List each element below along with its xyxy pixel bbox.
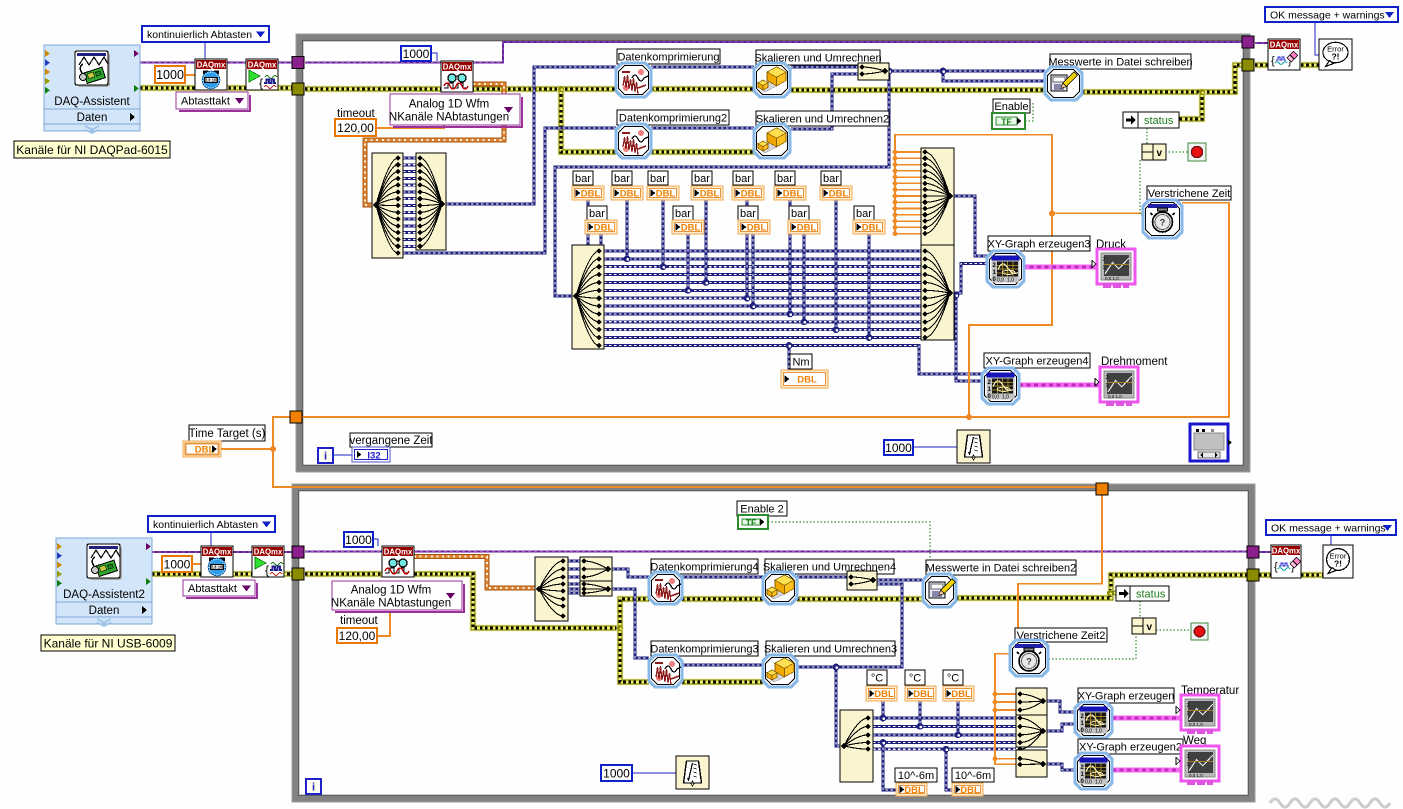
svg-text:DAQmx: DAQmx (1272, 546, 1301, 555)
svg-text:{: { (259, 76, 263, 90)
svg-text:DBL: DBL (741, 189, 761, 200)
svg-text:Daten: Daten (89, 605, 120, 617)
svg-text:status: status (1136, 589, 1166, 601)
svg-text:DAQmx: DAQmx (203, 547, 232, 556)
svg-text:DAQmx: DAQmx (197, 60, 226, 69)
svg-text:1000: 1000 (885, 441, 912, 455)
svg-text:vergangene Zeit: vergangene Zeit (349, 435, 433, 447)
svg-text:?: ? (1026, 657, 1032, 667)
svg-text:0,0 1,0: 0,0 1,0 (1189, 722, 1203, 727)
svg-text:DBL: DBL (874, 689, 894, 700)
svg-text:?: ? (1160, 218, 1166, 228)
svg-text:DBL: DBL (700, 189, 720, 200)
svg-text:bar: bar (675, 208, 691, 220)
svg-text:DBL: DBL (681, 223, 701, 234)
svg-text:NKanäle NAbtastungen: NKanäle NAbtastungen (331, 598, 451, 610)
svg-text:1000: 1000 (345, 533, 372, 547)
svg-text:bar: bar (823, 173, 839, 185)
svg-text:i: i (324, 451, 327, 463)
svg-text:XY-Graph erzeugen4: XY-Graph erzeugen4 (986, 355, 1089, 367)
svg-text:13:10: 13:10 (212, 565, 223, 570)
svg-text:2: 2 (1187, 754, 1190, 760)
svg-text:1000: 1000 (156, 68, 184, 82)
svg-text:{: { (1271, 55, 1275, 67)
svg-text:bar: bar (791, 208, 807, 220)
svg-text:OK message + warnings: OK message + warnings (1271, 522, 1386, 534)
svg-text:DBL: DBL (783, 189, 803, 200)
svg-text:DAQmx: DAQmx (254, 547, 283, 556)
svg-text:bar: bar (589, 208, 605, 220)
svg-text:Enable 2: Enable 2 (740, 503, 783, 515)
svg-text:1,0: 1,0 (1002, 395, 1009, 401)
svg-text:v: v (1156, 148, 1162, 159)
svg-text:{: { (265, 563, 269, 577)
svg-text:2: 2 (1187, 703, 1190, 709)
svg-text:kontinuierlich Abtasten: kontinuierlich Abtasten (153, 519, 258, 531)
svg-text:1: 1 (1187, 762, 1190, 768)
svg-text:kontinuierlich Abtasten: kontinuierlich Abtasten (147, 29, 252, 41)
svg-text:0,0 1,0: 0,0 1,0 (1189, 773, 1203, 778)
svg-text:{: { (1274, 561, 1278, 573)
svg-text:I32: I32 (367, 450, 380, 461)
svg-text:bar: bar (575, 173, 591, 185)
svg-text:OK message + warnings: OK message + warnings (1270, 9, 1385, 21)
svg-text:120,00: 120,00 (339, 629, 376, 643)
svg-text:DBL: DBL (862, 223, 882, 234)
svg-text:1: 1 (1103, 265, 1106, 271)
svg-text:bar: bar (735, 173, 751, 185)
svg-text:DBL: DBL (656, 189, 676, 200)
svg-text:DAQ-Assistent2: DAQ-Assistent2 (63, 589, 145, 601)
svg-text:bar: bar (777, 173, 793, 185)
svg-text:°C: °C (947, 672, 959, 684)
svg-text:DBL: DBL (829, 189, 849, 200)
svg-text:Analog 1D Wfm: Analog 1D Wfm (409, 99, 490, 111)
svg-text:Daten: Daten (77, 112, 108, 124)
svg-text:i: i (312, 782, 315, 794)
svg-text:1000: 1000 (403, 47, 430, 61)
svg-text:DAQ-Assistent: DAQ-Assistent (54, 96, 130, 108)
svg-text:DBL: DBL (594, 223, 614, 234)
svg-text:DBL: DBL (747, 223, 767, 234)
svg-text:bar: bar (694, 173, 710, 185)
svg-text:v: v (1146, 622, 1152, 633)
svg-text:DBL: DBL (951, 689, 971, 700)
svg-text:Nm: Nm (792, 356, 809, 368)
svg-text:DBL: DBL (797, 375, 817, 386)
svg-text:Kanäle für NI DAQPad-6015: Kanäle für NI DAQPad-6015 (16, 143, 168, 157)
svg-text:TF: TF (1001, 117, 1011, 127)
svg-text:1,0: 1,0 (1095, 729, 1102, 735)
svg-text:1: 1 (1106, 383, 1109, 389)
svg-text:1,0: 1,0 (1007, 278, 1014, 284)
svg-text:DAQmx: DAQmx (443, 62, 472, 71)
svg-text:10^-6m: 10^-6m (898, 770, 934, 782)
svg-text:NKanäle NAbtastungen: NKanäle NAbtastungen (389, 112, 509, 124)
svg-text:TF: TF (746, 518, 756, 528)
svg-text:0,0 1,0: 0,0 1,0 (1108, 394, 1122, 399)
svg-text:Abtasttakt: Abtasttakt (188, 583, 237, 595)
svg-text:0,0: 0,0 (992, 395, 999, 401)
svg-text:DBL: DBL (581, 189, 601, 200)
svg-text:Kanäle für NI USB-6009: Kanäle für NI USB-6009 (44, 636, 173, 650)
svg-text:status: status (1144, 115, 1174, 127)
svg-text:Analog 1D Wfm: Analog 1D Wfm (351, 585, 432, 597)
svg-text:DAQmx: DAQmx (248, 60, 277, 69)
svg-text:bar: bar (650, 173, 666, 185)
svg-text:DBL: DBL (797, 223, 817, 234)
svg-text:DAQmx: DAQmx (384, 547, 413, 556)
svg-text:1000: 1000 (164, 557, 191, 571)
svg-text:2: 2 (1106, 375, 1109, 381)
svg-text:Abtasttakt: Abtasttakt (181, 95, 230, 107)
svg-text:DBL: DBL (960, 785, 980, 796)
svg-text:0,0: 0,0 (997, 278, 1004, 284)
svg-text:DBL: DBL (195, 445, 215, 456)
svg-text:DAQmx: DAQmx (1270, 40, 1299, 49)
svg-text:1,0: 1,0 (1095, 780, 1102, 786)
svg-text:bar: bar (614, 173, 630, 185)
svg-text:Verstrichene Zeit: Verstrichene Zeit (1148, 188, 1231, 200)
svg-text:?!: ?! (1331, 52, 1339, 62)
svg-text:1: 1 (1187, 711, 1190, 717)
svg-text:120,00: 120,00 (337, 121, 374, 135)
svg-text:1000: 1000 (603, 766, 630, 780)
svg-text:0,0: 0,0 (1085, 780, 1092, 786)
svg-text:°C: °C (871, 672, 883, 684)
svg-text:bar: bar (856, 208, 872, 220)
svg-text:DBL: DBL (620, 189, 640, 200)
svg-text:Time Target (s): Time Target (s) (189, 428, 266, 440)
svg-text:13:10: 13:10 (206, 78, 217, 83)
svg-text:°C: °C (909, 672, 921, 684)
svg-text:DBL: DBL (913, 689, 933, 700)
svg-text:2: 2 (1103, 257, 1106, 263)
svg-text:XY-Graph erzeugen3: XY-Graph erzeugen3 (988, 238, 1091, 250)
svg-text:timeout: timeout (340, 615, 379, 627)
svg-text:Enable: Enable (994, 101, 1028, 113)
svg-text:DBL: DBL (904, 785, 924, 796)
svg-text:0,0 1,0: 0,0 1,0 (1105, 276, 1119, 281)
svg-text:bar: bar (740, 208, 756, 220)
svg-text:?!: ?! (1334, 559, 1342, 569)
svg-text:0,0: 0,0 (1085, 729, 1092, 735)
svg-text:10^-6m: 10^-6m (955, 770, 991, 782)
